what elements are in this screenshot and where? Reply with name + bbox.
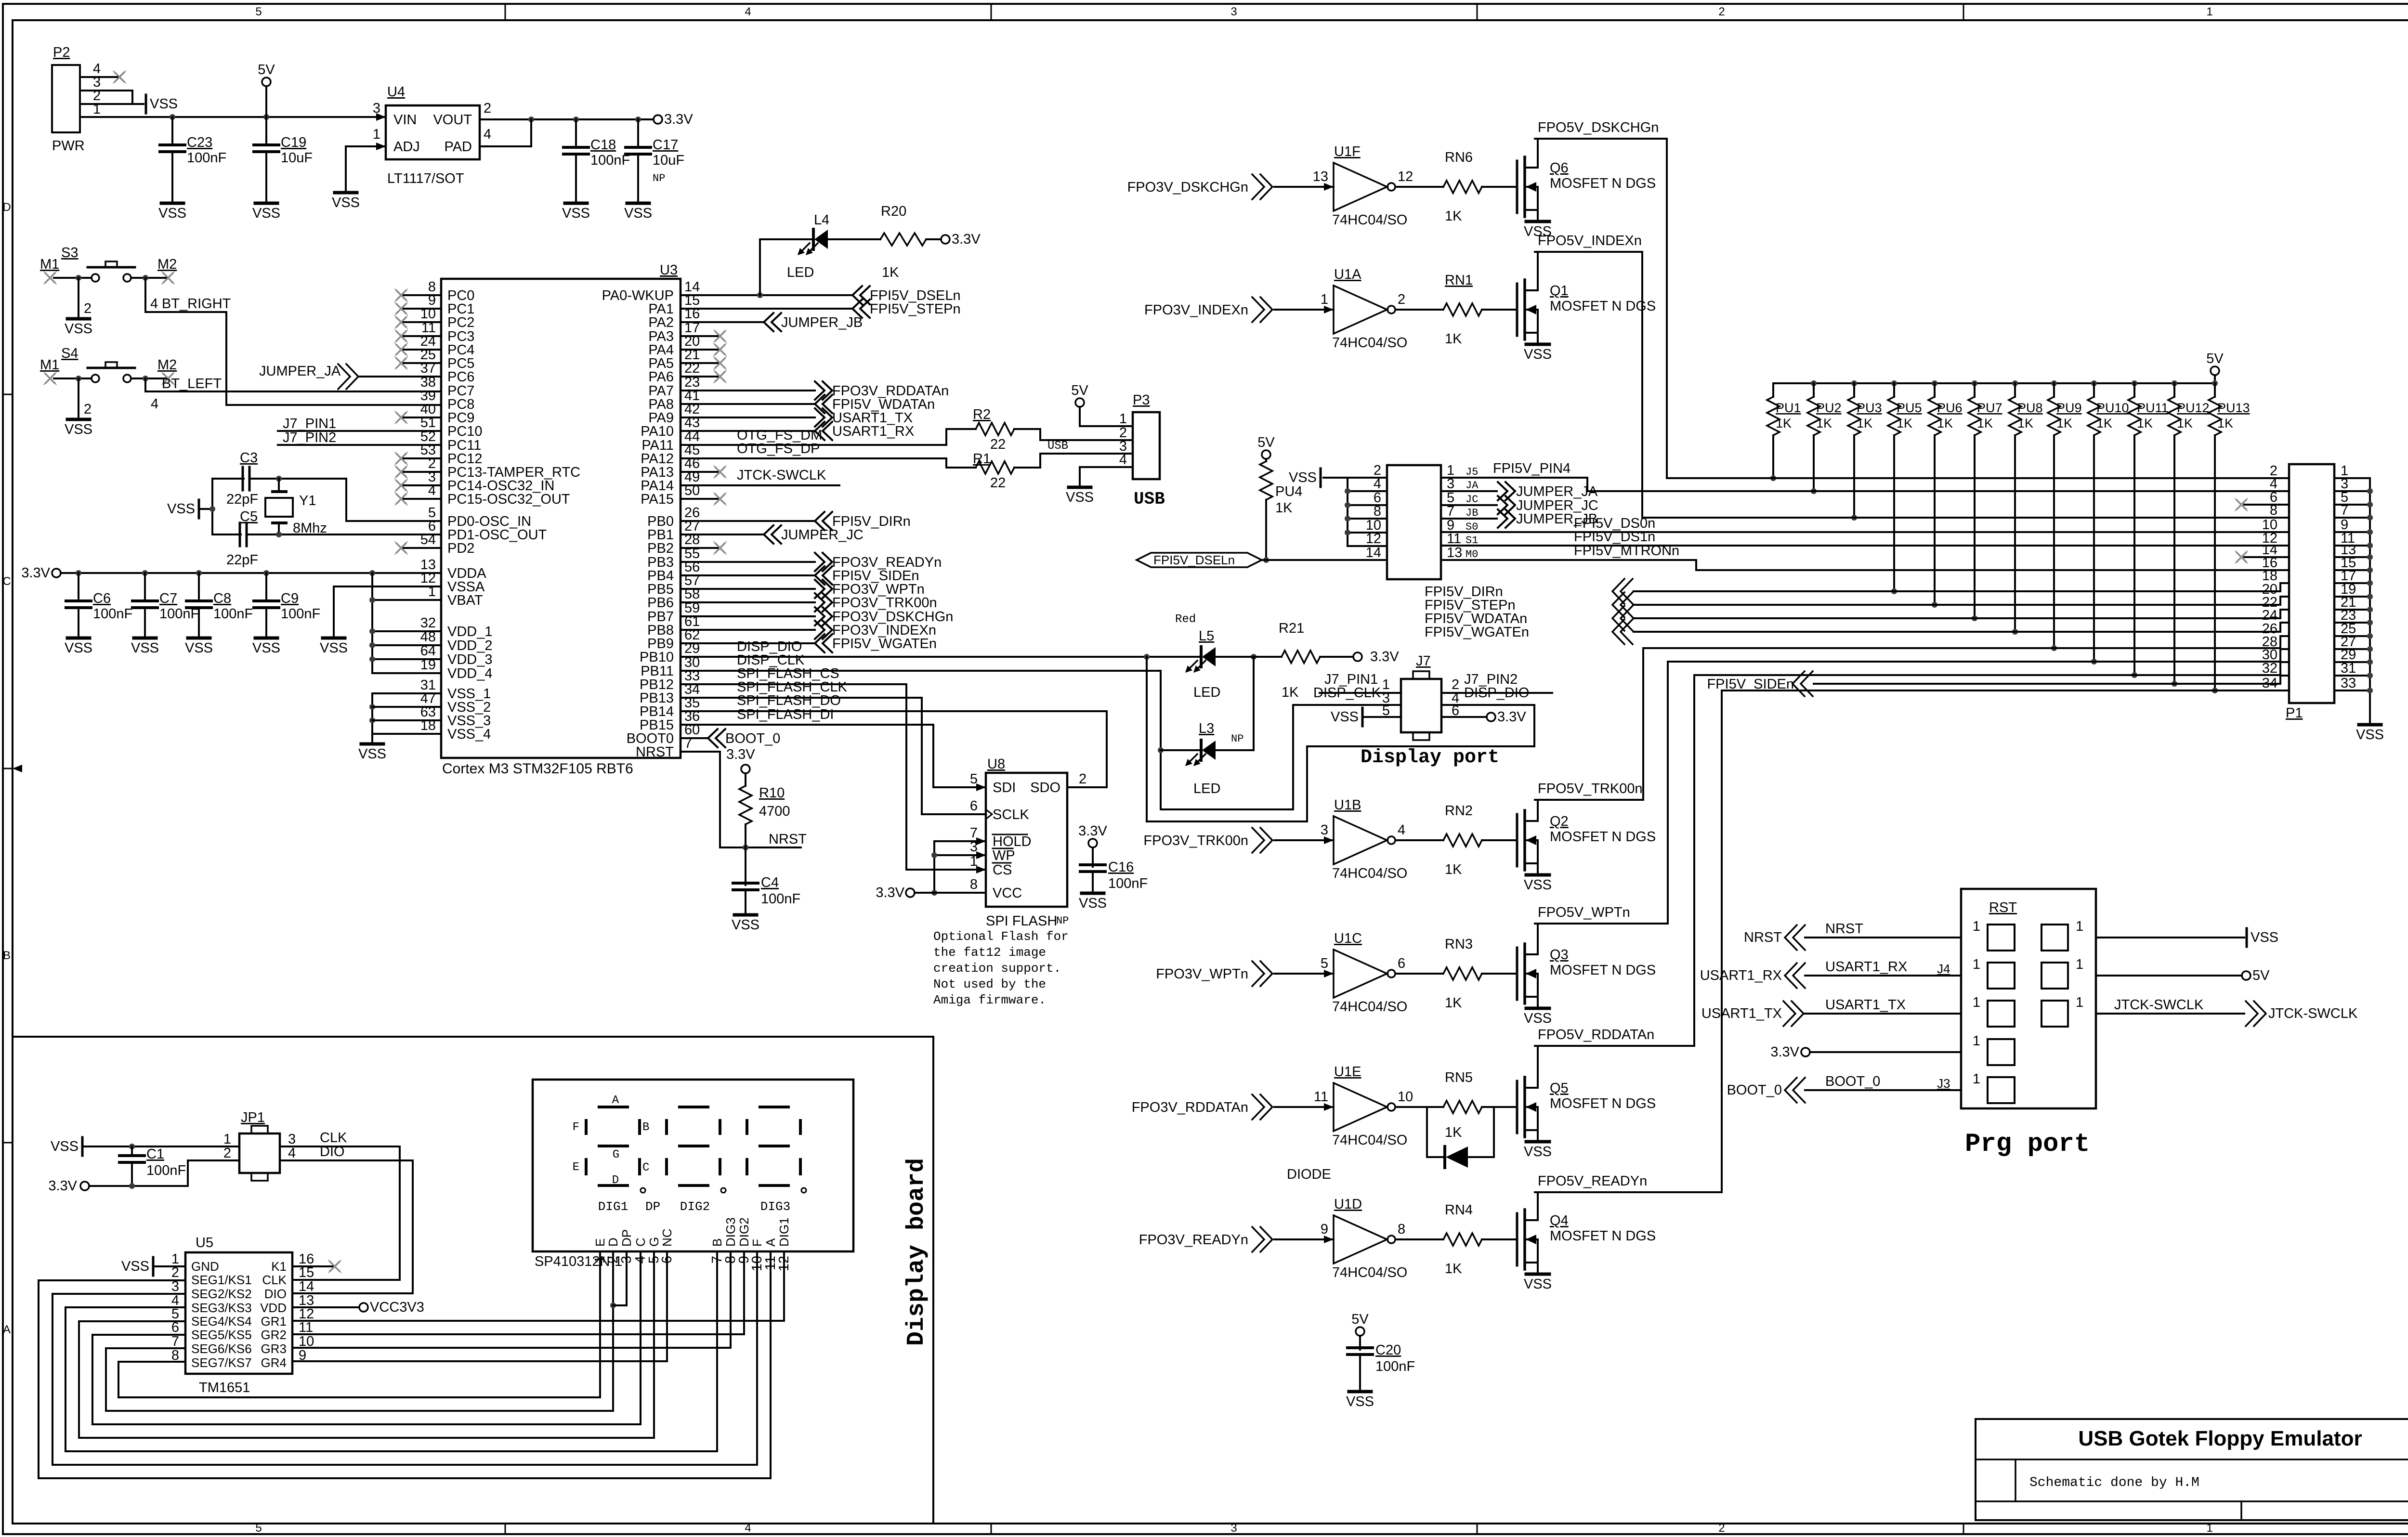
svg-text:32: 32 (420, 615, 436, 631)
svg-text:1K: 1K (2056, 416, 2072, 430)
wire P1 row8 INDEX (1642, 517, 2289, 519)
wire U4 PAD to VOUT (480, 119, 531, 146)
svg-text:P3: P3 (1133, 392, 1150, 408)
svg-text:PA10: PA10 (641, 424, 674, 439)
svg-text:MOSFET N DGS: MOSFET N DGS (1550, 829, 1656, 845)
svg-text:PU3: PU3 (1857, 401, 1882, 415)
net FPI5V_PIN4 J5 pin1 (1493, 461, 1570, 476)
wire U4 ADJ to VSS (332, 146, 386, 210)
wire PA3 nc (681, 330, 726, 342)
svg-text:K1: K1 (271, 1259, 287, 1274)
svg-text:3.3V: 3.3V (726, 747, 755, 762)
svg-text:Cortex M3 STM32F105 RBT6: Cortex M3 STM32F105 RBT6 (442, 761, 633, 777)
wire PA5 nc (681, 357, 726, 369)
svg-text:2: 2 (1398, 292, 1405, 307)
wire FPO5V_DSKCHGn to P1 row2 (1535, 139, 1667, 478)
svg-text:10uF: 10uF (653, 153, 684, 168)
svg-text:VSS: VSS (65, 422, 92, 437)
inverter U1E 74HC04 (1132, 1064, 1517, 1148)
svg-text:RN2: RN2 (1445, 803, 1473, 819)
svg-text:JTCK-SWCLK: JTCK-SWCLK (2114, 997, 2204, 1013)
svg-text:BT_LEFT: BT_LEFT (162, 376, 222, 391)
display board section label (903, 1158, 930, 1346)
svg-text:PA15: PA15 (641, 492, 674, 507)
svg-text:4: 4 (1398, 822, 1405, 838)
svg-text:JA: JA (1466, 480, 1479, 492)
wire U8 HOLD WP to VCC (931, 837, 986, 896)
net J7_PIN1 to PC10 (278, 416, 441, 431)
svg-text:USART1_RX: USART1_RX (832, 424, 914, 439)
wire P1 row4 jumper (1587, 490, 2289, 492)
wire WPT row28 (1668, 649, 2289, 662)
svg-text:J7_PIN1: J7_PIN1 (283, 416, 336, 431)
capacitor C17 NP (624, 119, 684, 221)
svg-text:VOUT: VOUT (433, 112, 472, 128)
svg-text:USART1_RX: USART1_RX (1825, 959, 1907, 975)
svg-text:PU12: PU12 (2177, 401, 2210, 415)
svg-text:5: 5 (255, 1522, 262, 1535)
resistor R21 1K (1216, 621, 1353, 700)
capacitor C23 (158, 117, 226, 221)
net Display port label (1361, 747, 1499, 768)
svg-text:PU2: PU2 (1816, 401, 1842, 415)
svg-text:4: 4 (150, 296, 158, 312)
svg-text:11: 11 (299, 1320, 313, 1335)
svg-text:B: B (642, 1121, 649, 1134)
svg-text:PC6: PC6 (447, 369, 474, 385)
svg-text:JB: JB (1466, 507, 1478, 519)
svg-text:TM1651: TM1651 (199, 1380, 250, 1395)
wire PC15 nc (395, 493, 441, 505)
svg-text:J4: J4 (1937, 962, 1950, 976)
svg-text:1: 1 (2076, 919, 2083, 934)
wire S3 to PC8 (145, 278, 441, 405)
svg-text:SEG5/KS5: SEG5/KS5 (191, 1328, 252, 1342)
resistor PU13 1K (2209, 383, 2250, 693)
svg-text:MOSFET N DGS: MOSFET N DGS (1550, 176, 1656, 191)
resistor PU8 1K (2009, 383, 2043, 635)
svg-text:JUMPER_JA: JUMPER_JA (1516, 484, 1598, 499)
wire NRST net (681, 752, 807, 850)
wire display segment pins (600, 1251, 784, 1478)
svg-text:PA2: PA2 (648, 315, 674, 330)
net JUMPER_JC at PB1 (681, 525, 864, 544)
net FPI5V_SIDEn wire row32 (1707, 671, 2289, 696)
svg-text:G: G (613, 1148, 619, 1161)
wire PC13 nc (395, 466, 441, 478)
svg-text:3: 3 (1230, 1522, 1237, 1535)
net FPO5V_TRK00n drain label (1538, 781, 1643, 796)
connector P1 floppy (2262, 463, 2356, 721)
svg-text:MOSFET N DGS: MOSFET N DGS (1550, 299, 1656, 314)
wire DISP_CLK PB11 (681, 652, 1161, 671)
net FPO5V_READYn drain label (1538, 1173, 1647, 1189)
svg-text:32: 32 (2262, 661, 2277, 676)
svg-text:PU8: PU8 (2017, 401, 2043, 415)
wire JP1 pin3 CLK to U5 (280, 1146, 400, 1280)
svg-text:3.3V: 3.3V (1497, 709, 1526, 725)
wire PC12 nc (395, 452, 441, 465)
svg-text:5V: 5V (2252, 968, 2270, 983)
svg-text:FPI5V_MTRONn: FPI5V_MTRONn (1574, 543, 1679, 559)
resistor RN4 1K (1445, 1261, 1462, 1276)
net USB label (1047, 440, 1068, 453)
svg-text:R21: R21 (1279, 621, 1304, 636)
svg-text:VSS: VSS (252, 640, 280, 656)
svg-text:FPO5V_TRK00n: FPO5V_TRK00n (1538, 781, 1643, 796)
transistor Q1 MOSFET (1517, 252, 1656, 362)
wire VSSA to VSS (320, 586, 441, 656)
svg-text:LED: LED (1193, 781, 1220, 796)
connector J5 (1366, 463, 1479, 579)
svg-text:FPI5V_PIN4: FPI5V_PIN4 (1493, 461, 1570, 476)
wire RDDATA row30 (1694, 662, 2289, 675)
transistor Q5 MOSFET (1517, 1046, 1656, 1159)
svg-text:VSS: VSS (158, 206, 186, 221)
wire RST VSS (2096, 928, 2278, 947)
net Prg port label (1965, 1130, 2090, 1159)
display board section box (13, 1037, 933, 1524)
power 5V at C19 (258, 62, 275, 117)
svg-text:PAD: PAD (445, 139, 472, 155)
svg-text:CS: CS (993, 862, 1012, 878)
wire JP1 pin4 DIO to U5 (280, 1160, 413, 1293)
svg-text:Q3: Q3 (1550, 947, 1569, 963)
svg-text:5: 5 (970, 771, 978, 787)
resistor R1 22 (681, 451, 1133, 491)
svg-text:FPI5V_WGATEn: FPI5V_WGATEn (832, 636, 937, 651)
svg-text:1K: 1K (882, 265, 899, 280)
svg-text:3: 3 (1230, 5, 1237, 18)
svg-text:1: 1 (1973, 1071, 1980, 1087)
svg-text:5V: 5V (1257, 435, 1275, 450)
svg-text:SPI FLASH: SPI FLASH (986, 913, 1057, 929)
svg-text:100nF: 100nF (761, 891, 800, 907)
net USART1_RX to RST (1700, 959, 1961, 988)
svg-text:SPI_FLASH_DO: SPI_FLASH_DO (737, 693, 841, 708)
svg-text:RN5: RN5 (1445, 1070, 1473, 1085)
switch S4 BT_LEFT (40, 346, 222, 437)
wire PA4 nc (681, 343, 726, 356)
wire P3 pin4 to VSS (1066, 467, 1133, 505)
svg-text:PB6: PB6 (647, 595, 674, 611)
svg-text:JC: JC (1466, 494, 1478, 506)
resistor PU3 1K (1848, 383, 1882, 521)
svg-text:R20: R20 (881, 204, 906, 219)
wire DISP_CLK vertical to J7 pin3 (1158, 671, 1401, 809)
svg-text:1K: 1K (1445, 208, 1462, 224)
wire J5 pin1 to P1 row4 (1441, 478, 1587, 491)
svg-text:FPO5V_WPTn: FPO5V_WPTn (1538, 905, 1630, 920)
svg-text:4: 4 (151, 396, 158, 412)
svg-text:JTCK-SWCLK: JTCK-SWCLK (2268, 1006, 2358, 1021)
svg-text:JP1: JP1 (241, 1110, 265, 1125)
svg-text:5: 5 (1321, 956, 1328, 971)
svg-text:1K: 1K (2017, 416, 2033, 430)
svg-text:PB2: PB2 (647, 541, 674, 556)
svg-text:DIG2: DIG2 (737, 1217, 751, 1247)
svg-text:FPO5V_DSKCHGn: FPO5V_DSKCHGn (1538, 120, 1659, 135)
svg-text:F: F (573, 1121, 579, 1134)
resistor R2 22 (681, 407, 1133, 452)
wire U5 SEG4 loop to segment G (79, 1321, 654, 1438)
svg-text:Q2: Q2 (1550, 814, 1569, 829)
wire P1 row6 nc (2235, 498, 2289, 511)
svg-text:C4: C4 (761, 875, 779, 890)
svg-text:RN3: RN3 (1445, 937, 1473, 952)
MCU U3 Cortex M3 STM32F105 RBT6 (420, 262, 700, 777)
wire DISP_DIO PB10 (681, 639, 1256, 660)
svg-text:8: 8 (1398, 1222, 1405, 1237)
net FPI5V_WGATEn at PB9 (681, 634, 937, 652)
svg-text:100nF: 100nF (1108, 876, 1148, 891)
svg-text:5V: 5V (1071, 383, 1088, 398)
svg-text:NP: NP (653, 172, 665, 184)
svg-text:3: 3 (1321, 822, 1328, 838)
svg-text:Q5: Q5 (1550, 1081, 1569, 1096)
svg-text:74HC04/SO: 74HC04/SO (1332, 335, 1407, 351)
svg-text:C: C (633, 1237, 648, 1247)
display DS1 SP410312N-1 (533, 1080, 853, 1271)
capacitor C6 (65, 573, 132, 656)
svg-text:100nF: 100nF (146, 1163, 186, 1178)
net FPI5V_STEPn at PA1 (681, 300, 961, 318)
svg-text:VSS: VSS (1331, 709, 1359, 725)
LED L3 NP (1161, 657, 1254, 796)
svg-text:FPO3V_READYn: FPO3V_READYn (1139, 1232, 1248, 1248)
net FPO3V_WPTn at PB5 (681, 580, 925, 598)
svg-text:U4: U4 (387, 84, 405, 100)
svg-text:22pF: 22pF (226, 552, 258, 568)
svg-text:1K: 1K (1977, 416, 1993, 430)
svg-text:2: 2 (1079, 771, 1086, 787)
wire U4 VOUT 3.3V rail (480, 117, 654, 122)
wire PC0 nc (395, 289, 441, 301)
svg-text:D: D (2, 201, 11, 214)
capacitor C16 (1078, 823, 1148, 911)
net FPO3V_DSKCHGn at PB7 (681, 607, 953, 625)
wire FPO5V_INDEXn to P1 row8 (1535, 252, 1642, 518)
net FPI5V_STEPn wire row20 (1425, 592, 2289, 617)
svg-text:GR3: GR3 (261, 1342, 287, 1356)
resistor PU11 1K (2128, 383, 2169, 678)
svg-text:2: 2 (1718, 5, 1725, 18)
svg-text:1K: 1K (2177, 416, 2193, 430)
power 3.3V VDDA rail (21, 565, 441, 581)
svg-text:VSS: VSS (1524, 1276, 1552, 1292)
wire P2 pin1 5V rail (80, 114, 386, 120)
svg-text:F: F (750, 1239, 764, 1247)
svg-text:14: 14 (299, 1279, 314, 1294)
net FPO5V_RDDATAn drain label (1538, 1027, 1654, 1042)
svg-text:PU4: PU4 (1275, 484, 1302, 499)
svg-text:LT1117/SOT: LT1117/SOT (387, 171, 464, 186)
svg-text:L5: L5 (1199, 628, 1214, 644)
svg-text:the fat12 image: the fat12 image (933, 945, 1046, 960)
resistor R20 1K (828, 204, 941, 280)
resistor RN5 1K (1445, 1125, 1462, 1140)
svg-text:DIG1: DIG1 (777, 1217, 791, 1247)
resistor RN6 1K (1445, 208, 1462, 224)
controller U5 TM1651 (171, 1235, 314, 1395)
svg-text:1K: 1K (2137, 416, 2153, 430)
svg-text:SEG4/KS4: SEG4/KS4 (191, 1314, 252, 1329)
svg-text:M1: M1 (40, 257, 59, 272)
net Red label (1175, 613, 1196, 626)
svg-text:PC2: PC2 (447, 315, 474, 330)
power 3.3V to RST (1770, 1044, 1961, 1060)
transistor Q4 MOSFET (1517, 1192, 1656, 1292)
svg-text:VIN: VIN (393, 112, 417, 128)
net FPO3V_TRK00n at PB6 (681, 593, 937, 612)
svg-text:E: E (593, 1238, 607, 1247)
svg-text:Amiga firmware.: Amiga firmware. (933, 993, 1046, 1007)
svg-text:VSS: VSS (1524, 877, 1552, 893)
resistor RN1 1K (1445, 331, 1462, 347)
svg-text:4: 4 (745, 5, 751, 18)
svg-text:U8: U8 (987, 756, 1005, 772)
svg-text:PU11: PU11 (2137, 401, 2169, 415)
svg-text:HOLD: HOLD (993, 834, 1032, 849)
svg-text:1: 1 (1973, 919, 1980, 934)
svg-text:VSS: VSS (121, 1259, 149, 1274)
capacitor C18 (562, 119, 630, 221)
note optional flash text (933, 929, 1069, 1007)
wire P2 pin3-pin2 to VSS (80, 91, 178, 113)
svg-text:Display board: Display board (903, 1158, 930, 1346)
svg-text:R1: R1 (973, 451, 991, 467)
svg-text:3.3V: 3.3V (1078, 823, 1107, 839)
svg-text:VDD_1: VDD_1 (447, 624, 493, 639)
wire U5 SEG6 loop to segment D (106, 1348, 613, 1411)
svg-text:NP: NP (1231, 733, 1243, 745)
svg-text:22: 22 (990, 437, 1006, 452)
svg-text:NRST: NRST (1744, 930, 1782, 945)
svg-text:33: 33 (2341, 676, 2356, 691)
svg-text:VSS: VSS (1289, 470, 1317, 485)
svg-text:U1D: U1D (1334, 1197, 1362, 1212)
svg-text:R10: R10 (759, 785, 785, 801)
wire PA15 nc (681, 493, 726, 505)
svg-text:Not used by the: Not used by the (933, 977, 1046, 991)
resistor PU7 1K (1968, 383, 2002, 621)
svg-text:FPI5V_STEPn: FPI5V_STEPn (870, 301, 961, 317)
svg-text:VCC: VCC (993, 886, 1022, 901)
svg-text:1K: 1K (1445, 995, 1462, 1011)
net FPI5V_DS1n wire row12 (1441, 529, 2289, 546)
net JUMPER_JB J5 pin7 (1441, 509, 1597, 528)
svg-text:5: 5 (255, 5, 262, 18)
svg-text:1: 1 (1973, 995, 1980, 1010)
svg-text:U5: U5 (196, 1235, 213, 1250)
svg-text:LED: LED (1193, 685, 1220, 700)
svg-text:13: 13 (1313, 169, 1328, 184)
svg-text:J7_PIN2: J7_PIN2 (283, 430, 336, 445)
connector P3 USB (1119, 392, 1165, 509)
svg-text:8: 8 (970, 877, 978, 892)
svg-text:4: 4 (1119, 452, 1127, 468)
svg-text:7: 7 (171, 1334, 179, 1349)
svg-text:1K: 1K (1937, 416, 1953, 430)
svg-text:Q1: Q1 (1550, 283, 1569, 299)
svg-text:1K: 1K (1445, 1125, 1462, 1140)
svg-text:22pF: 22pF (226, 492, 258, 507)
wire J7 pin5 VSS (1331, 708, 1401, 726)
svg-text:100nF: 100nF (93, 606, 132, 622)
svg-text:C8: C8 (213, 591, 231, 606)
svg-text:VBAT: VBAT (447, 593, 483, 608)
svg-text:WP: WP (993, 848, 1015, 863)
svg-text:PU1: PU1 (1776, 401, 1801, 415)
wire U5 GR4 to NC (292, 1360, 667, 1362)
inverter U1B 74HC04 (1143, 797, 1517, 881)
svg-text:100nF: 100nF (187, 150, 226, 166)
svg-text:C19: C19 (281, 135, 306, 150)
svg-text:4: 4 (288, 1146, 296, 1161)
net FPO3V_READYn at PB3 (681, 553, 942, 571)
svg-text:74HC04/SO: 74HC04/SO (1332, 1133, 1407, 1148)
svg-text:NRST: NRST (636, 744, 674, 760)
resistor R10 4700 (739, 785, 790, 885)
svg-text:VSS: VSS (358, 746, 386, 762)
resistor PU5 1K (1888, 383, 1922, 594)
svg-text:DP: DP (619, 1229, 634, 1247)
wire PC5 nc (395, 357, 441, 369)
svg-text:VSS: VSS (1346, 1394, 1374, 1409)
svg-text:L3: L3 (1199, 721, 1214, 736)
resistor PU9 1K (2048, 383, 2082, 651)
wire VBAT VDD rail (369, 573, 441, 673)
svg-text:22: 22 (990, 475, 1006, 491)
wire U5 GR2 to DIG2 (292, 1333, 744, 1335)
svg-text:U1A: U1A (1334, 267, 1361, 282)
svg-text:FPO5V_READYn: FPO5V_READYn (1538, 1173, 1647, 1189)
svg-text:BOOT_0: BOOT_0 (725, 731, 780, 746)
svg-text:6: 6 (1398, 956, 1405, 971)
net JUMPER_JB at PA2 (681, 313, 863, 331)
svg-text:VSS: VSS (732, 917, 759, 933)
capacitor C3 22pF (226, 450, 258, 507)
net FPI5V_SIDEn at PB4 (681, 566, 919, 585)
wire U5 GND VSS (121, 1257, 185, 1276)
wire FPO5V_TRK00n riser (1535, 648, 1643, 800)
net BOOT_0 at BOOT0 (681, 729, 780, 747)
svg-text:PWR: PWR (52, 138, 85, 154)
svg-text:L4: L4 (814, 212, 829, 228)
svg-text:SPI_FLASH_DI: SPI_FLASH_DI (737, 707, 834, 722)
svg-text:DIG2: DIG2 (680, 1199, 710, 1214)
svg-text:VSS: VSS (2251, 930, 2278, 945)
svg-text:RST: RST (1989, 900, 2017, 915)
svg-text:VSS: VSS (2356, 727, 2384, 742)
resistor PU4 1K (1257, 435, 1302, 563)
svg-text:RN4: RN4 (1445, 1202, 1473, 1218)
svg-text:NRST: NRST (1825, 921, 1863, 937)
net JTCK-SWCLK out (2096, 997, 2358, 1026)
svg-text:Schematic done by H.M: Schematic done by H.M (2029, 1475, 2199, 1490)
crystal Y1 8Mhz (265, 479, 327, 536)
svg-text:VSS_4: VSS_4 (447, 727, 491, 742)
svg-text:R2: R2 (973, 407, 991, 422)
svg-text:1K: 1K (2217, 416, 2233, 430)
svg-text:M0: M0 (1466, 548, 1478, 560)
svg-text:12: 12 (1398, 169, 1413, 184)
capacitor C7 (131, 573, 199, 656)
svg-text:2: 2 (84, 301, 92, 316)
wire J7 pin6 3.3V (1441, 709, 1526, 725)
net FPI5V_DIRn at PB0 (681, 512, 911, 530)
svg-text:1: 1 (1973, 1033, 1980, 1049)
